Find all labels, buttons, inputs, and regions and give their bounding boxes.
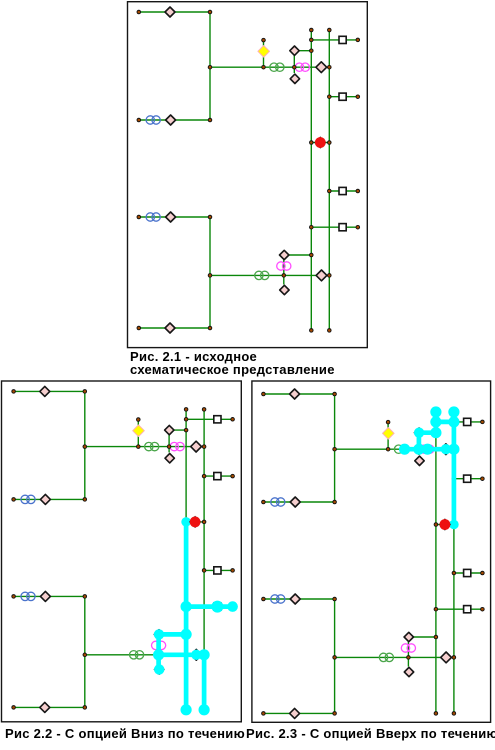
P1 valve V2 second-left	[166, 115, 176, 125]
P2 node riser2 bottom	[202, 708, 207, 713]
P1 pump blue lower	[146, 213, 160, 221]
P3 node tank3 end	[480, 571, 485, 576]
P3 wire: left riser lower	[334, 599, 336, 713]
P2 valve V1 top-left	[40, 386, 50, 396]
P1 wire: branch to tank 2	[329, 96, 358, 98]
P3 wire: top-left supply run	[263, 393, 334, 395]
P3 highlight blob: tank1 riser2 cross	[448, 416, 459, 427]
P3 valve V7 upper trunk main	[441, 444, 452, 455]
P2 pump magenta upper trunk	[170, 442, 184, 450]
P3 node corner A	[332, 392, 337, 397]
P1 wire: left riser upper	[209, 12, 211, 120]
P1 pump blue upper	[146, 116, 160, 124]
P2 node source A	[11, 389, 16, 394]
P2 valve V2 second-left	[40, 494, 50, 504]
P3 wire: branch to tank 2	[454, 478, 483, 480]
P1 node corner D	[208, 326, 213, 331]
P1 node tank4 end	[356, 225, 361, 230]
P2 highlight: cluster branch run	[159, 632, 186, 637]
P2 node tank2 end	[230, 474, 235, 479]
P2 node tank4 branch tap	[184, 604, 189, 609]
P3 pump magenta lower-cluster	[401, 644, 415, 652]
P1 wire: yellow-valve stub	[263, 40, 265, 67]
P1 node riser1 top	[309, 28, 314, 33]
P2 highlight blob: tank4 end	[227, 601, 238, 612]
P1 node trunk-riser2 upper	[327, 65, 332, 70]
P2 node riser1 top	[184, 407, 189, 412]
P2 wire: second-left supply run	[14, 498, 85, 500]
P3 node yellow stub base	[386, 447, 391, 452]
P3 node upper-cluster junction	[417, 447, 422, 452]
P3 highlight blob: cluster junction	[413, 444, 424, 455]
P3 node junction lower trunk	[332, 655, 337, 660]
P2 wire: upper-cluster branch to riser 1	[169, 429, 186, 431]
P3 pump magenta upper trunk	[420, 445, 434, 453]
P3 tank T4	[464, 606, 471, 613]
P2 node corner D	[83, 705, 88, 710]
P3 node tank3 branch tap	[452, 571, 457, 576]
P2 highlight blob: cluster riser tap	[181, 629, 192, 640]
P3 wire: yellow-valve stub	[387, 422, 389, 449]
P3 wire: branch to tank 3	[454, 572, 483, 574]
P3 tank T3	[464, 569, 471, 576]
P2 wire: branch to tank 4	[186, 606, 233, 608]
P2 highlight blob: cluster bottom valve	[154, 664, 164, 674]
P2 valve V4 bottom-left	[40, 702, 50, 712]
P3 wire: upper-cluster stub	[418, 433, 420, 450]
P1 tank T1	[339, 36, 346, 43]
P1 node upper-cluster junction	[292, 65, 297, 70]
P2 wire: bottom-left supply run	[14, 706, 85, 708]
P1 node corner B	[208, 118, 213, 123]
P2 highlight blob: riser2 outfall	[199, 704, 210, 715]
P1 node tank2 end	[356, 94, 361, 99]
P2 wire: lower-cluster stub	[158, 634, 160, 664]
P2 node riser2 top	[202, 407, 207, 412]
P3 wire: riser 2	[453, 412, 455, 713]
P1 valve V8 lower-cluster top	[280, 250, 289, 259]
P3 node source D	[261, 711, 266, 716]
P3 highlight blob: cluster riser tap	[430, 427, 441, 438]
P3 highlight blob: magenta pump	[422, 444, 433, 455]
P2 highlight: lower trunk run	[159, 652, 205, 657]
P1 wire: lower-cluster branch to riser 1	[284, 254, 311, 256]
P1 node corner C	[208, 215, 213, 220]
P3 highlight: cluster branch run	[419, 430, 436, 435]
P2 highlight blob: tank4 tank	[211, 601, 223, 613]
P3 highlight: upper trunk run	[404, 447, 454, 452]
P1 node riser1 bottom	[309, 328, 314, 333]
P2 tank T2	[214, 473, 221, 480]
P1 node source C	[137, 215, 142, 220]
P3 highlight blob: trunk valve	[441, 444, 451, 454]
P1 closed-link marker red	[314, 136, 326, 148]
P2 pump green upper trunk	[145, 442, 159, 450]
P2 tank T4	[214, 603, 221, 610]
P2 valve V3 third-left	[40, 591, 50, 601]
P2 valve V7 upper trunk main	[191, 441, 202, 452]
P1 node source D	[137, 326, 142, 331]
P1 valve V3 third-left	[166, 212, 176, 222]
P3 highlight: tank1 branch run	[436, 420, 454, 425]
P2 highlight: riser2 downstream run	[202, 655, 207, 710]
P2 node tank1 end	[230, 417, 235, 422]
P2 wire: red-link connector	[186, 521, 204, 523]
P3 node trunk-riser2 upper	[452, 447, 457, 452]
P3 node riser1 top	[434, 410, 439, 415]
P3 wire: lower trunk main	[335, 656, 454, 658]
P1 node tank3 end	[356, 189, 361, 194]
P1 valve V4 bottom-left	[165, 323, 175, 333]
P3 valve V4 bottom-left	[290, 708, 300, 718]
P1 valve V1 top-left	[165, 7, 175, 17]
P3 node corner C	[332, 597, 337, 602]
P3 node riser2 bottom	[452, 711, 457, 716]
P3 node tank2 branch tap	[452, 476, 457, 481]
P2 node riser1 bottom	[184, 708, 189, 713]
P1 wire: upper trunk main	[210, 66, 329, 68]
P2 valve V5 upper-cluster top	[165, 425, 174, 434]
P2 highlight blob: cluster top valve	[154, 629, 164, 639]
P3 node red-link right	[452, 522, 457, 527]
P3 wire: lower-cluster branch to riser 1	[409, 636, 436, 638]
P3 pump blue lower	[271, 595, 285, 603]
P1 node riser2 top	[327, 28, 332, 33]
P1 wire: upper-cluster hanging stub	[293, 67, 295, 73]
P2 pump magenta lower-cluster	[152, 641, 166, 649]
P3 valve V3 third-left	[290, 594, 300, 604]
P3 highlight blob: riser2 head	[448, 406, 459, 417]
P2 node corner B	[83, 497, 88, 502]
P2 wire: riser 1	[185, 409, 187, 709]
panel 1 frame	[128, 2, 368, 348]
P3 valve V8 lower-cluster top	[404, 632, 413, 641]
P2 wire: branch to tank 3	[204, 569, 233, 571]
P3 node source A	[261, 392, 266, 397]
P1 wire: branch to tank 4	[311, 226, 358, 228]
P3 node yellow stub top	[386, 420, 391, 425]
P2 wire: branch to tank 1	[186, 418, 233, 420]
P2 node junction upper trunk	[83, 444, 88, 449]
P2 highlight blob: riser1 outfall	[181, 704, 192, 715]
P3 highlight: riser1 top run	[434, 412, 439, 433]
P1 node tank1 branch tap	[309, 38, 314, 43]
P1 wire: third-left supply run	[139, 216, 210, 218]
P3 node red-link left	[434, 522, 439, 527]
P3 node tank1 end	[480, 420, 485, 425]
P3 node tank4 branch tap	[434, 607, 439, 612]
P3 node source B	[261, 500, 266, 505]
P1 wire: upper-cluster branch to riser 1	[294, 50, 311, 52]
P3 valve V9 lower-cluster bottom	[404, 667, 413, 676]
P1 node tank3 branch tap	[327, 189, 332, 194]
P2 node upper-cluster junction	[167, 444, 172, 449]
P3 pump green upper trunk	[394, 445, 408, 453]
P2 node source B	[11, 497, 16, 502]
P1 wire: riser 2	[328, 30, 330, 330]
P3 node tank4 end	[480, 607, 485, 612]
P1 wire: red-link connector	[311, 142, 329, 144]
P2 pump blue upper	[21, 495, 35, 503]
P2 pump blue lower	[21, 592, 35, 600]
P2 node tank1 branch tap	[184, 417, 189, 422]
P3 wire: third-left supply run	[263, 598, 334, 600]
P2 highlight blob: junction at red link	[181, 517, 191, 527]
P1 node riser2 bottom	[327, 328, 332, 333]
P1 node red-link right	[327, 140, 332, 145]
P2 wire: upper-cluster stub	[168, 430, 170, 447]
P3 valve V5 upper-cluster top	[414, 428, 423, 437]
P3 wire: upper-cluster branch to riser 1	[419, 432, 436, 434]
P1 node corner A	[208, 10, 213, 15]
P1 node lower-cluster junction	[282, 273, 287, 278]
P2 highlight: cluster stub run	[156, 634, 161, 669]
P2 wire: branch to tank 2	[204, 475, 233, 477]
P3 node lower-cluster riser tap	[434, 635, 439, 640]
P3 node lower-cluster junction	[406, 655, 411, 660]
P1 pump magenta upper trunk	[295, 63, 309, 71]
P1 wire: lower-cluster stub	[283, 255, 285, 285]
P1 wire: riser 1	[310, 30, 312, 330]
P3 node riser2 top	[452, 410, 457, 415]
P3 wire: second-left supply run	[263, 501, 334, 503]
P3 wire: left riser upper	[334, 394, 336, 502]
P1 wire: branch to tank 3	[329, 190, 358, 192]
P2 node tank2 branch tap	[202, 474, 207, 479]
P3 highlight blob: junction at red link	[449, 520, 459, 530]
P1 valve V6 upper-cluster bottom	[290, 74, 299, 83]
P1 node red-link left	[309, 140, 314, 145]
P2 wire: top-left supply run	[14, 390, 85, 392]
P1 node tank2 branch tap	[327, 94, 332, 99]
P3 node source C	[261, 597, 266, 602]
P1 tank T3	[339, 187, 346, 194]
P1 valve V10 lower trunk main	[316, 270, 327, 281]
P3 node tank1 branch tap	[434, 420, 439, 425]
P2 wire: lower-cluster branch to riser 1	[159, 633, 186, 635]
P2 node tank3 end	[230, 568, 235, 573]
P3 wire: bottom-left supply run	[263, 712, 334, 714]
P2 wire: upper-cluster hanging stub	[168, 447, 170, 453]
P3 valve V2 second-left	[290, 497, 300, 507]
P2 node corner A	[83, 389, 88, 394]
P3 highlight blob: green pump outlet	[399, 444, 410, 455]
P2 highlight blob: trunk riser2 junction	[199, 649, 210, 660]
P2 closed-link marker red	[189, 516, 201, 528]
P1 wire: left riser lower	[209, 217, 211, 328]
P2 node tank3 branch tap	[202, 568, 207, 573]
P1 node lower-cluster riser tap	[309, 253, 314, 258]
P2 node yellow stub top	[136, 417, 141, 422]
P3 wire: branch to tank 1	[436, 421, 483, 423]
P2 wire: riser 2	[203, 409, 205, 709]
P1 wire: upper-cluster stub	[293, 51, 295, 67]
P2 node corner C	[83, 594, 88, 599]
P3 highlight: cluster stub run	[417, 433, 422, 450]
P2 highlight: riser1 downstream run	[184, 522, 189, 710]
P3 node junction upper trunk	[332, 447, 337, 452]
caption figure 2.2	[5, 727, 245, 740]
P3 wire: red-link connector	[436, 524, 454, 526]
P2 node red-link left	[184, 520, 189, 525]
P3 pump green lower trunk	[379, 653, 393, 661]
P1 wire: lower trunk main	[210, 274, 329, 276]
P1 wire: bottom-left supply run	[139, 327, 210, 329]
P1 wire: top-left supply run	[139, 11, 210, 13]
P3 highlight: riser2 upstream run	[452, 412, 457, 525]
P1 wire: branch to tank 1	[311, 39, 358, 41]
P2 wire: left riser lower	[84, 596, 86, 707]
P2 tank T1	[214, 416, 221, 423]
caption figure 2.3	[246, 727, 495, 740]
P2 node source D	[11, 705, 16, 710]
P3 highlight blob: trunk riser2 junction	[448, 444, 459, 455]
P1 control valve yellow	[258, 46, 270, 58]
P2 valve V6 upper-cluster bottom	[165, 454, 174, 463]
panel 3 frame	[252, 381, 491, 722]
P3 wire: riser 1	[435, 412, 437, 713]
P1 valve V7 upper trunk main	[316, 62, 327, 73]
P1 node yellow stub top	[261, 38, 266, 43]
P3 wire: lower-cluster stub	[407, 637, 409, 667]
P1 node junction upper trunk	[208, 65, 213, 70]
P2 node upper-cluster riser tap	[184, 428, 189, 433]
P2 wire: lower trunk main	[85, 654, 204, 656]
P3 tank T1	[464, 418, 471, 425]
P2 node lower-cluster riser tap	[184, 632, 189, 637]
P1 node trunk-riser2 lower	[327, 273, 332, 278]
P2 tank T3	[214, 567, 221, 574]
P1 pump magenta lower-cluster	[277, 262, 291, 270]
P1 tank T2	[339, 93, 346, 100]
P2 valve V8 lower-cluster top	[154, 630, 163, 639]
caption figure 2.1	[130, 350, 335, 377]
P3 pump blue upper	[271, 498, 285, 506]
P3 node riser1 bottom	[434, 711, 439, 716]
P2 node trunk-riser2 lower	[202, 653, 207, 658]
P3 node trunk-riser2 lower	[452, 655, 457, 660]
P2 valve V9 lower-cluster bottom	[155, 665, 164, 674]
P3 node tank2 end	[480, 476, 485, 481]
P1 tank T4	[339, 224, 346, 231]
P2 node source C	[11, 594, 16, 599]
P3 valve V10 lower trunk main	[441, 652, 452, 663]
P1 node tank1 end	[356, 38, 361, 43]
P3 highlight blob: riser1 head	[430, 406, 441, 417]
P2 node trunk-riser2 upper	[202, 444, 207, 449]
P3 tank T2	[464, 475, 471, 482]
P2 node tank4 end	[230, 604, 235, 609]
P2 control valve yellow	[133, 425, 145, 437]
P1 node upper-cluster riser tap	[309, 48, 314, 53]
panel 2 frame	[2, 381, 242, 722]
P3 wire: upper trunk main	[335, 448, 454, 450]
P1 wire: second-left supply run	[139, 119, 210, 121]
P1 node source A	[137, 10, 142, 15]
P1 node yellow stub base	[261, 65, 266, 70]
P2 node red-link right	[202, 520, 207, 525]
P3 node corner D	[332, 711, 337, 716]
P1 valve V5 upper-cluster top	[290, 46, 299, 55]
P2 pump green lower trunk	[130, 651, 144, 659]
P3 wire: branch to tank 4	[436, 608, 483, 610]
P3 closed-link marker red	[439, 518, 451, 530]
P2 wire: left riser upper	[84, 391, 86, 499]
P2 valve V10 lower trunk main	[191, 649, 202, 660]
P1 pump green upper trunk	[270, 63, 284, 71]
P3 highlight blob: cluster top valve	[414, 428, 424, 438]
P1 node junction lower trunk	[208, 273, 213, 278]
P2 wire: yellow-valve stub	[137, 420, 139, 447]
P3 highlight blob: tank1 tap	[430, 416, 441, 427]
P2 highlight blob: cluster junction	[153, 649, 164, 660]
P3 valve V1 top-left	[290, 389, 300, 399]
P1 node source B	[137, 118, 142, 123]
P2 highlight blob: tank4 tap	[181, 601, 192, 612]
P2 wire: third-left supply run	[14, 595, 85, 597]
P1 pump green lower trunk	[255, 271, 269, 279]
P2 highlight: tank4 branch run	[186, 604, 233, 609]
P3 node corner B	[332, 500, 337, 505]
P2 wire: upper trunk main	[85, 446, 204, 448]
P1 valve V9 lower-cluster bottom	[280, 285, 289, 294]
P3 valve V6 upper-cluster bottom	[415, 456, 424, 465]
P3 node upper-cluster riser tap	[434, 430, 439, 435]
P3 wire: upper-cluster hanging stub	[418, 449, 420, 455]
P2 node lower-cluster junction	[156, 653, 161, 658]
P2 node junction lower trunk	[83, 653, 88, 658]
P3 control valve yellow	[383, 428, 395, 440]
P1 node tank4 branch tap	[309, 225, 314, 230]
P2 node yellow stub base	[136, 444, 141, 449]
P2 highlight blob: trunk valve	[191, 650, 201, 660]
